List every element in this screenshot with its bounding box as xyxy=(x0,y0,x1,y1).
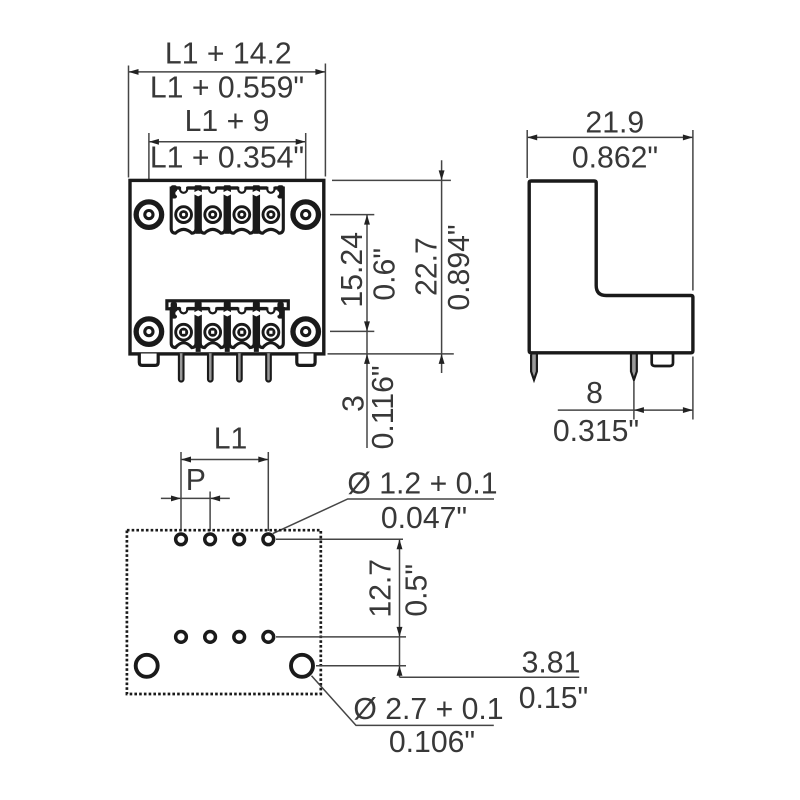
screw terminal 2 (bottom row) xyxy=(205,324,221,340)
extension line left of L1+14.2 xyxy=(128,66,130,178)
svg-text:L1 + 14.2: L1 + 14.2 xyxy=(165,38,292,71)
pole 3 clamp cell (top row) xyxy=(229,188,254,233)
extension line right of 21.9 xyxy=(692,130,694,291)
side view L-shaped housing xyxy=(529,181,693,353)
extension line left of L1+9 xyxy=(148,133,150,198)
screw terminal 4 (top row) xyxy=(263,207,279,223)
wire entry slot xyxy=(180,185,187,193)
drill holes row 1 xyxy=(176,534,274,545)
extension line below body right edge xyxy=(692,357,694,420)
screw terminal 1 (top row) xyxy=(176,207,192,223)
pole 4 clamp cell (top row) xyxy=(259,188,284,233)
wire entry slot xyxy=(238,185,245,193)
leader dia 2.7 xyxy=(312,676,494,726)
screw terminal 4 (bottom row) xyxy=(263,324,279,340)
foot right front xyxy=(297,354,315,366)
mounting flange circle bottom-left xyxy=(136,319,162,345)
dim 3.81 leader xyxy=(400,676,580,678)
extension line below side pin right xyxy=(633,382,635,420)
svg-text:Ø 2.7 + 0.1: Ø 2.7 + 0.1 xyxy=(353,693,503,726)
pole 2 clamp cell (top row) xyxy=(200,188,225,233)
mounting flange circle bottom-right xyxy=(293,319,319,345)
pole 4 clamp cell (bottom row) xyxy=(259,309,284,348)
wire release notch xyxy=(250,190,262,196)
svg-text:0.116": 0.116" xyxy=(367,365,400,449)
leader dia 1.2 xyxy=(273,499,494,534)
extension line row2 right xyxy=(276,636,406,638)
extension line right of L1+14.2 xyxy=(324,64,326,177)
svg-text:0.894": 0.894" xyxy=(443,224,476,310)
svg-text:12.7: 12.7 xyxy=(365,559,398,618)
dim 21.9 line xyxy=(527,136,693,138)
wire release notch xyxy=(221,190,233,196)
svg-text:21.9: 21.9 xyxy=(585,107,644,140)
side foot bump xyxy=(652,355,673,367)
wire entry slot xyxy=(209,305,216,313)
dim P line xyxy=(161,497,230,499)
bottom terminal row block xyxy=(171,302,284,352)
extension line at pcb plane for 22.7/3 xyxy=(328,353,454,355)
svg-text:L1 + 0.354": L1 + 0.354" xyxy=(150,141,304,174)
side pin left xyxy=(531,355,537,380)
foot left front xyxy=(139,354,158,366)
extension line hole2 column xyxy=(209,492,211,532)
svg-text:L1 + 9: L1 + 9 xyxy=(185,105,270,138)
svg-text:0.6": 0.6" xyxy=(368,248,401,301)
wire entry slot xyxy=(209,185,216,193)
extension line at body top for 22.7 xyxy=(332,179,451,181)
svg-text:3: 3 xyxy=(338,395,371,412)
svg-text:0.862": 0.862" xyxy=(572,142,658,175)
dim 3.81 line xyxy=(399,637,401,677)
svg-text:P: P xyxy=(186,464,206,497)
extension line at top row centre xyxy=(330,214,374,216)
mounting flange circle top-right xyxy=(293,202,319,228)
wire entry slot xyxy=(180,305,187,313)
svg-text:0.315": 0.315" xyxy=(553,415,639,448)
wire release notch xyxy=(221,310,233,316)
dim L1+14.2 line xyxy=(129,71,326,73)
dim 22.7 line xyxy=(441,160,443,373)
svg-text:15.24: 15.24 xyxy=(336,232,369,308)
screw terminal 3 (top row) xyxy=(234,207,250,223)
svg-text:L1 + 0.559": L1 + 0.559" xyxy=(150,72,304,105)
wire entry slot xyxy=(267,185,274,193)
svg-text:8: 8 xyxy=(586,377,603,410)
svg-text:3.81: 3.81 xyxy=(522,647,581,680)
bottom terminal row plateau xyxy=(167,301,288,309)
pcb outline dotted xyxy=(127,530,321,694)
svg-text:Ø 1.2 + 0.1: Ø 1.2 + 0.1 xyxy=(347,468,497,501)
extension line hole1 column xyxy=(180,452,182,531)
wire entry slot xyxy=(267,305,274,313)
mounting hole left xyxy=(136,655,158,677)
drill holes row 2 xyxy=(176,632,274,643)
extension line mounting hole right xyxy=(316,665,406,667)
pole 1 clamp cell (top row) xyxy=(171,188,196,233)
svg-text:0.047": 0.047" xyxy=(381,502,467,535)
svg-text:22.7: 22.7 xyxy=(411,237,444,296)
pole 1 clamp cell (bottom row) xyxy=(171,309,196,348)
dim L1+9 line xyxy=(149,141,306,143)
wire release notch xyxy=(192,310,204,316)
dim 15.24 line xyxy=(366,215,368,332)
mounting hole right xyxy=(291,655,313,677)
pole 3 clamp cell (bottom row) xyxy=(229,309,254,348)
pole 2 clamp cell (bottom row) xyxy=(200,309,225,348)
solder pins front xyxy=(179,353,271,381)
dim 8 line xyxy=(558,409,693,411)
dim L1 line xyxy=(181,459,268,461)
extension line row1 right xyxy=(276,538,403,540)
svg-text:L1: L1 xyxy=(214,422,248,455)
screw terminal 2 (top row) xyxy=(205,207,221,223)
dim 3 line xyxy=(366,331,368,448)
screw terminal 3 (bottom row) xyxy=(234,324,250,340)
mounting flange circle top-left xyxy=(136,202,162,228)
svg-text:0.106": 0.106" xyxy=(389,726,475,759)
side pin right xyxy=(631,355,637,380)
connector body outline front xyxy=(130,180,324,354)
top terminal row block xyxy=(171,185,284,234)
wire release notch xyxy=(192,190,204,196)
wire entry slot xyxy=(238,305,245,313)
extension line right of L1+9 xyxy=(305,133,307,198)
svg-text:0.5": 0.5" xyxy=(400,564,433,617)
extension line left of 21.9 xyxy=(526,130,528,178)
wire release notch xyxy=(250,310,262,316)
extension line hole4 column xyxy=(267,452,269,531)
extension line at bottom row centre xyxy=(330,330,374,332)
svg-text:0.15": 0.15" xyxy=(519,682,588,715)
dim 12.7 line xyxy=(399,539,401,637)
screw terminal 1 (bottom row) xyxy=(176,324,192,340)
